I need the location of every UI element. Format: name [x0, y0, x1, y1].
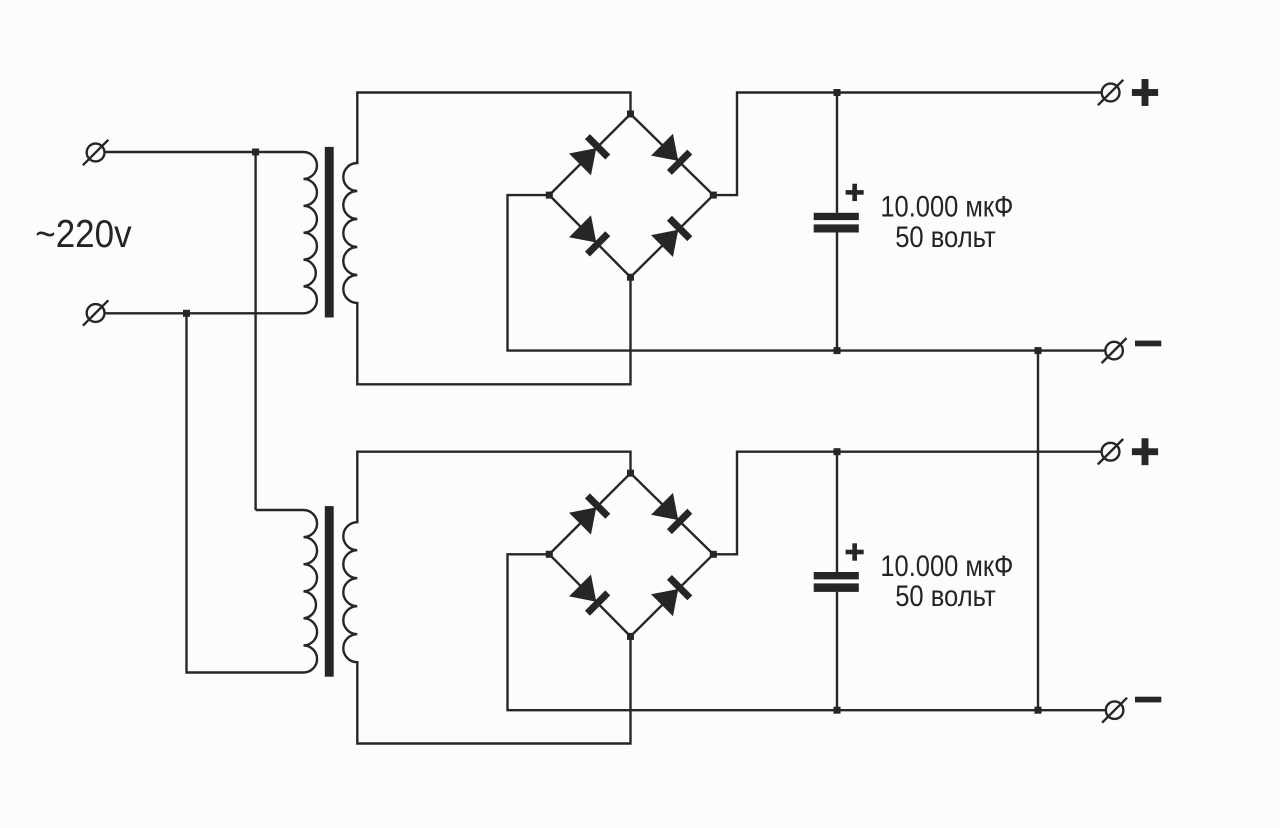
transformer T1 core [325, 147, 334, 318]
junction: link node on -rail 1 [1035, 347, 1042, 354]
svg-text:10.000 мкФ: 10.000 мкФ [880, 550, 1013, 583]
capacitor C1 polarity plus mark [846, 184, 864, 201]
svg-text:10.000 мкФ: 10.000 мкФ [880, 191, 1013, 224]
output terminal +U2 [1098, 439, 1123, 464]
diode VD4 [651, 215, 693, 257]
transformer T2 core [325, 506, 334, 677]
diode VD5 [569, 493, 611, 535]
junction: bridge 2 minus node [546, 551, 553, 558]
junction: C1 minus node [834, 347, 841, 354]
transformer T1 secondary winding with wire to bridge AC nodes [343, 93, 630, 385]
input terminal X2 (bottom mains) [83, 300, 108, 325]
svg-text:50 вольт: 50 вольт [895, 580, 996, 613]
wire: bridge 2 plus output to +rail [713, 452, 1101, 555]
svg-text:50 вольт: 50 вольт [895, 221, 996, 254]
bridge rectifier VD1-VD4 diamond wiring [549, 114, 713, 277]
transformer T2 secondary winding with wire to bridge AC nodes [343, 452, 630, 744]
wire: bridge 1 minus output to -rail [508, 195, 1106, 351]
transformer T1 primary winding [304, 152, 317, 313]
junction: bridge 1 AC bottom node [627, 274, 634, 281]
label: output 2 minus sign [1135, 697, 1161, 703]
capacitor C1 negative lead [836, 233, 838, 351]
junction: mains top feed node [252, 149, 259, 156]
diode VD3 [569, 215, 611, 257]
junction: bridge 1 AC top node [627, 111, 634, 118]
output terminal +U1 [1098, 80, 1123, 105]
output terminal -U1 [1102, 338, 1127, 363]
junction: C1 plus node [834, 89, 841, 96]
label: output 1 plus sign [1132, 79, 1158, 106]
junction: bridge 2 plus node [710, 551, 717, 558]
diode VD6 [651, 493, 693, 535]
junction: bridge 1 plus node [710, 192, 717, 199]
junction: bridge 1 minus node [546, 192, 553, 199]
label: output 2 plus sign [1132, 438, 1158, 465]
diode VD8 [651, 574, 693, 616]
svg-text:~220v: ~220v [35, 213, 132, 256]
junction: bridge 2 AC top node [627, 470, 634, 477]
wire: mains top feed down to T2 primary [254, 152, 256, 510]
transformer T2 primary winding [256, 510, 317, 673]
wire mains bottom: terminal X2 to primary of T1 [105, 312, 304, 314]
junction: link node on -rail 2 [1035, 707, 1042, 714]
label: output 1 minus sign [1135, 341, 1161, 347]
diode VD2 [651, 134, 693, 176]
capacitor C2 negative lead [836, 592, 838, 710]
junction: mains bottom feed node [183, 310, 190, 317]
wire: mains bottom feed down to T2 primary [187, 313, 304, 672]
bridge rectifier VD5-VD8 diamond wiring [549, 473, 713, 636]
output terminal -U2 [1102, 698, 1127, 723]
capacitor C1 plates [814, 213, 859, 233]
junction: C2 plus node [834, 448, 841, 455]
diode VD7 [569, 574, 611, 616]
capacitor C2 plates [814, 572, 859, 592]
wire mains top: terminal X1 to primary of T1 [105, 151, 304, 153]
diode VD1 [569, 133, 611, 175]
capacitor C1 positive lead [836, 93, 838, 213]
junction: C2 minus node [834, 707, 841, 714]
input terminal X1 (top mains) [83, 140, 108, 165]
junction: bridge 2 AC bottom node [627, 633, 634, 640]
wire: link between channel 1 minus rail and channel 2 minus rail [1037, 351, 1039, 711]
capacitor C2 polarity plus mark [846, 543, 864, 560]
wire: bridge 2 minus output to -rail [508, 554, 1106, 710]
capacitor C2 positive lead [836, 452, 838, 572]
wire: bridge 1 plus output to +rail [713, 93, 1101, 196]
